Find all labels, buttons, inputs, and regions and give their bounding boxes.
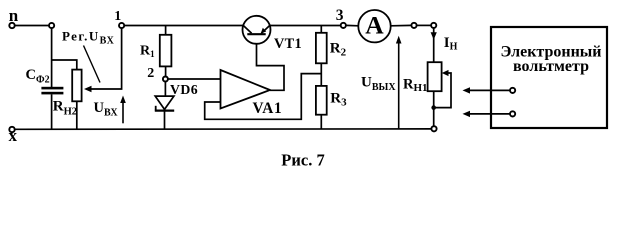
voltmeter probe lead lower [463, 111, 516, 117]
wire VT1 to node 3 [270, 25, 341, 27]
svg-text:Рег.UВХ: Рег.UВХ [62, 29, 115, 47]
svg-text:3: 3 [336, 7, 344, 24]
svg-text:VT1: VT1 [274, 36, 302, 52]
svg-text:RН1: RН1 [403, 76, 428, 94]
node 1 [114, 9, 124, 28]
svg-text:IН: IН [444, 35, 458, 52]
svg-text:А: А [365, 11, 384, 40]
svg-text:UВЫХ: UВЫХ [361, 75, 396, 94]
capacitor C_F2 [26, 67, 64, 95]
wiper of R_H1 tied to bottom [431, 70, 451, 110]
transistor VT1 [243, 16, 302, 52]
bottom terminal circle right [431, 126, 436, 131]
voltage arrow U_VYH [361, 36, 402, 129]
svg-text:1: 1 [114, 9, 121, 24]
wire terminal down to R_H1 with current arrow I_N [431, 28, 458, 62]
wire rail to R1 [165, 26, 167, 35]
wiper of R_H2 to node 1 [84, 28, 122, 92]
resistor R3 [316, 86, 347, 115]
svg-text:вольтметр: вольтметр [513, 58, 589, 75]
wire node 1 to VT1 [124, 25, 243, 27]
svg-text:UВХ: UВХ [94, 100, 119, 119]
wire junction down to capacitor [51, 28, 53, 87]
resistor R2 [316, 33, 347, 64]
wire ammeter to output terminal [391, 24, 412, 26]
resistor R1 [140, 35, 171, 67]
wire R1 to node 2 [165, 66, 167, 76]
wire n to junction A [15, 25, 49, 27]
svg-text:VD6: VD6 [170, 82, 198, 97]
svg-text:R3: R3 [330, 91, 347, 109]
node 3 [336, 7, 346, 28]
output terminal circle (left) [411, 23, 416, 28]
rheostat R_H1 [403, 62, 442, 94]
svg-text:VA1: VA1 [253, 100, 283, 117]
wire rail to R2 [320, 26, 322, 33]
svg-text:R1: R1 [140, 44, 155, 60]
svg-text:Рис. 7: Рис. 7 [281, 150, 324, 169]
bottom rail wire [15, 128, 432, 130]
node 2 [147, 66, 168, 81]
potentiometer R_H2 [53, 70, 82, 118]
wire node 2 to op-amp input [168, 78, 221, 80]
voltage arrow U_VX [94, 96, 126, 124]
svg-text:2: 2 [147, 66, 154, 81]
svg-text:СФ2: СФ2 [26, 67, 50, 86]
voltmeter probe lead upper [463, 87, 516, 93]
ammeter A [358, 10, 390, 42]
wire between output terminals [417, 24, 431, 26]
wire node 3 to ammeter [346, 24, 359, 26]
wire R2 to R3 [320, 63, 322, 86]
wire R_H2 bottom to rail [76, 101, 78, 128]
terminal n [9, 6, 19, 28]
svg-text:R2: R2 [330, 41, 347, 59]
wire R_H1 bottom to rail terminal [433, 91, 435, 126]
wire branch to R_H2 top [52, 60, 77, 70]
zener diode VD6 [155, 82, 198, 129]
feedback wire from divider to op-amp inverting input [205, 74, 322, 120]
label Reg.Uvx with leader line [62, 29, 115, 83]
output terminal circle (right) [431, 23, 436, 28]
terminal x [9, 126, 18, 145]
wire capacitor to bottom rail [51, 94, 53, 128]
electronic voltmeter box [491, 27, 607, 128]
node A (input junction) [49, 23, 54, 28]
wire op-amp output to VT1 base [257, 35, 285, 90]
wire R3 to bottom rail [320, 115, 322, 129]
svg-text:n: n [9, 6, 19, 25]
op-amp VA1 [221, 70, 283, 117]
